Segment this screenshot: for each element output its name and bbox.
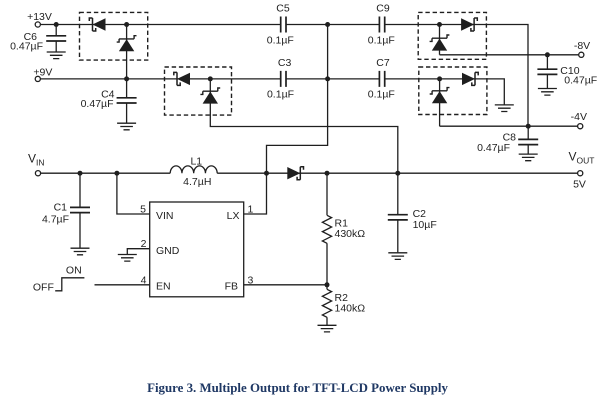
svg-text:5V: 5V <box>573 179 586 191</box>
svg-text:Figure 3. Multiple Output for: Figure 3. Multiple Output for TFT-LCD Po… <box>147 381 448 395</box>
svg-text:-4V: -4V <box>571 111 587 123</box>
svg-text:L1: L1 <box>190 155 202 167</box>
svg-text:OFF: OFF <box>33 282 54 294</box>
svg-text:0.47µF: 0.47µF <box>10 40 43 52</box>
svg-text:1: 1 <box>248 204 254 216</box>
svg-text:C7: C7 <box>376 57 390 69</box>
svg-text:VIN: VIN <box>156 210 174 222</box>
svg-text:C3: C3 <box>278 57 292 69</box>
svg-text:C9: C9 <box>376 2 390 14</box>
svg-text:FB: FB <box>225 280 238 292</box>
svg-text:0.47µF: 0.47µF <box>564 75 597 87</box>
svg-text:-8V: -8V <box>574 40 590 52</box>
svg-text:0.1µF: 0.1µF <box>368 34 395 46</box>
svg-text:0.1µF: 0.1µF <box>267 34 294 46</box>
svg-text:0.47µF: 0.47µF <box>477 142 510 154</box>
svg-text:2: 2 <box>141 238 147 250</box>
svg-text:10µF: 10µF <box>413 219 437 231</box>
svg-text:430kΩ: 430kΩ <box>335 228 366 240</box>
svg-text:EN: EN <box>156 280 171 292</box>
svg-text:0.1µF: 0.1µF <box>267 88 294 100</box>
svg-text:+9V: +9V <box>33 67 52 79</box>
svg-text:5: 5 <box>140 204 146 216</box>
svg-text:140kΩ: 140kΩ <box>335 303 366 315</box>
svg-text:0.47µF: 0.47µF <box>81 98 114 110</box>
svg-text:4.7µF: 4.7µF <box>42 214 69 226</box>
svg-text:+13V: +13V <box>27 11 52 23</box>
svg-text:C5: C5 <box>276 2 290 14</box>
svg-text:GND: GND <box>156 245 180 257</box>
svg-text:ON: ON <box>66 265 82 277</box>
svg-text:3: 3 <box>248 274 254 286</box>
svg-text:0.1µF: 0.1µF <box>368 88 395 100</box>
svg-text:C2: C2 <box>413 208 427 220</box>
svg-text:4: 4 <box>141 274 147 286</box>
svg-text:C1: C1 <box>54 201 68 213</box>
svg-text:LX: LX <box>227 210 240 222</box>
svg-text:4.7µH: 4.7µH <box>183 176 211 188</box>
